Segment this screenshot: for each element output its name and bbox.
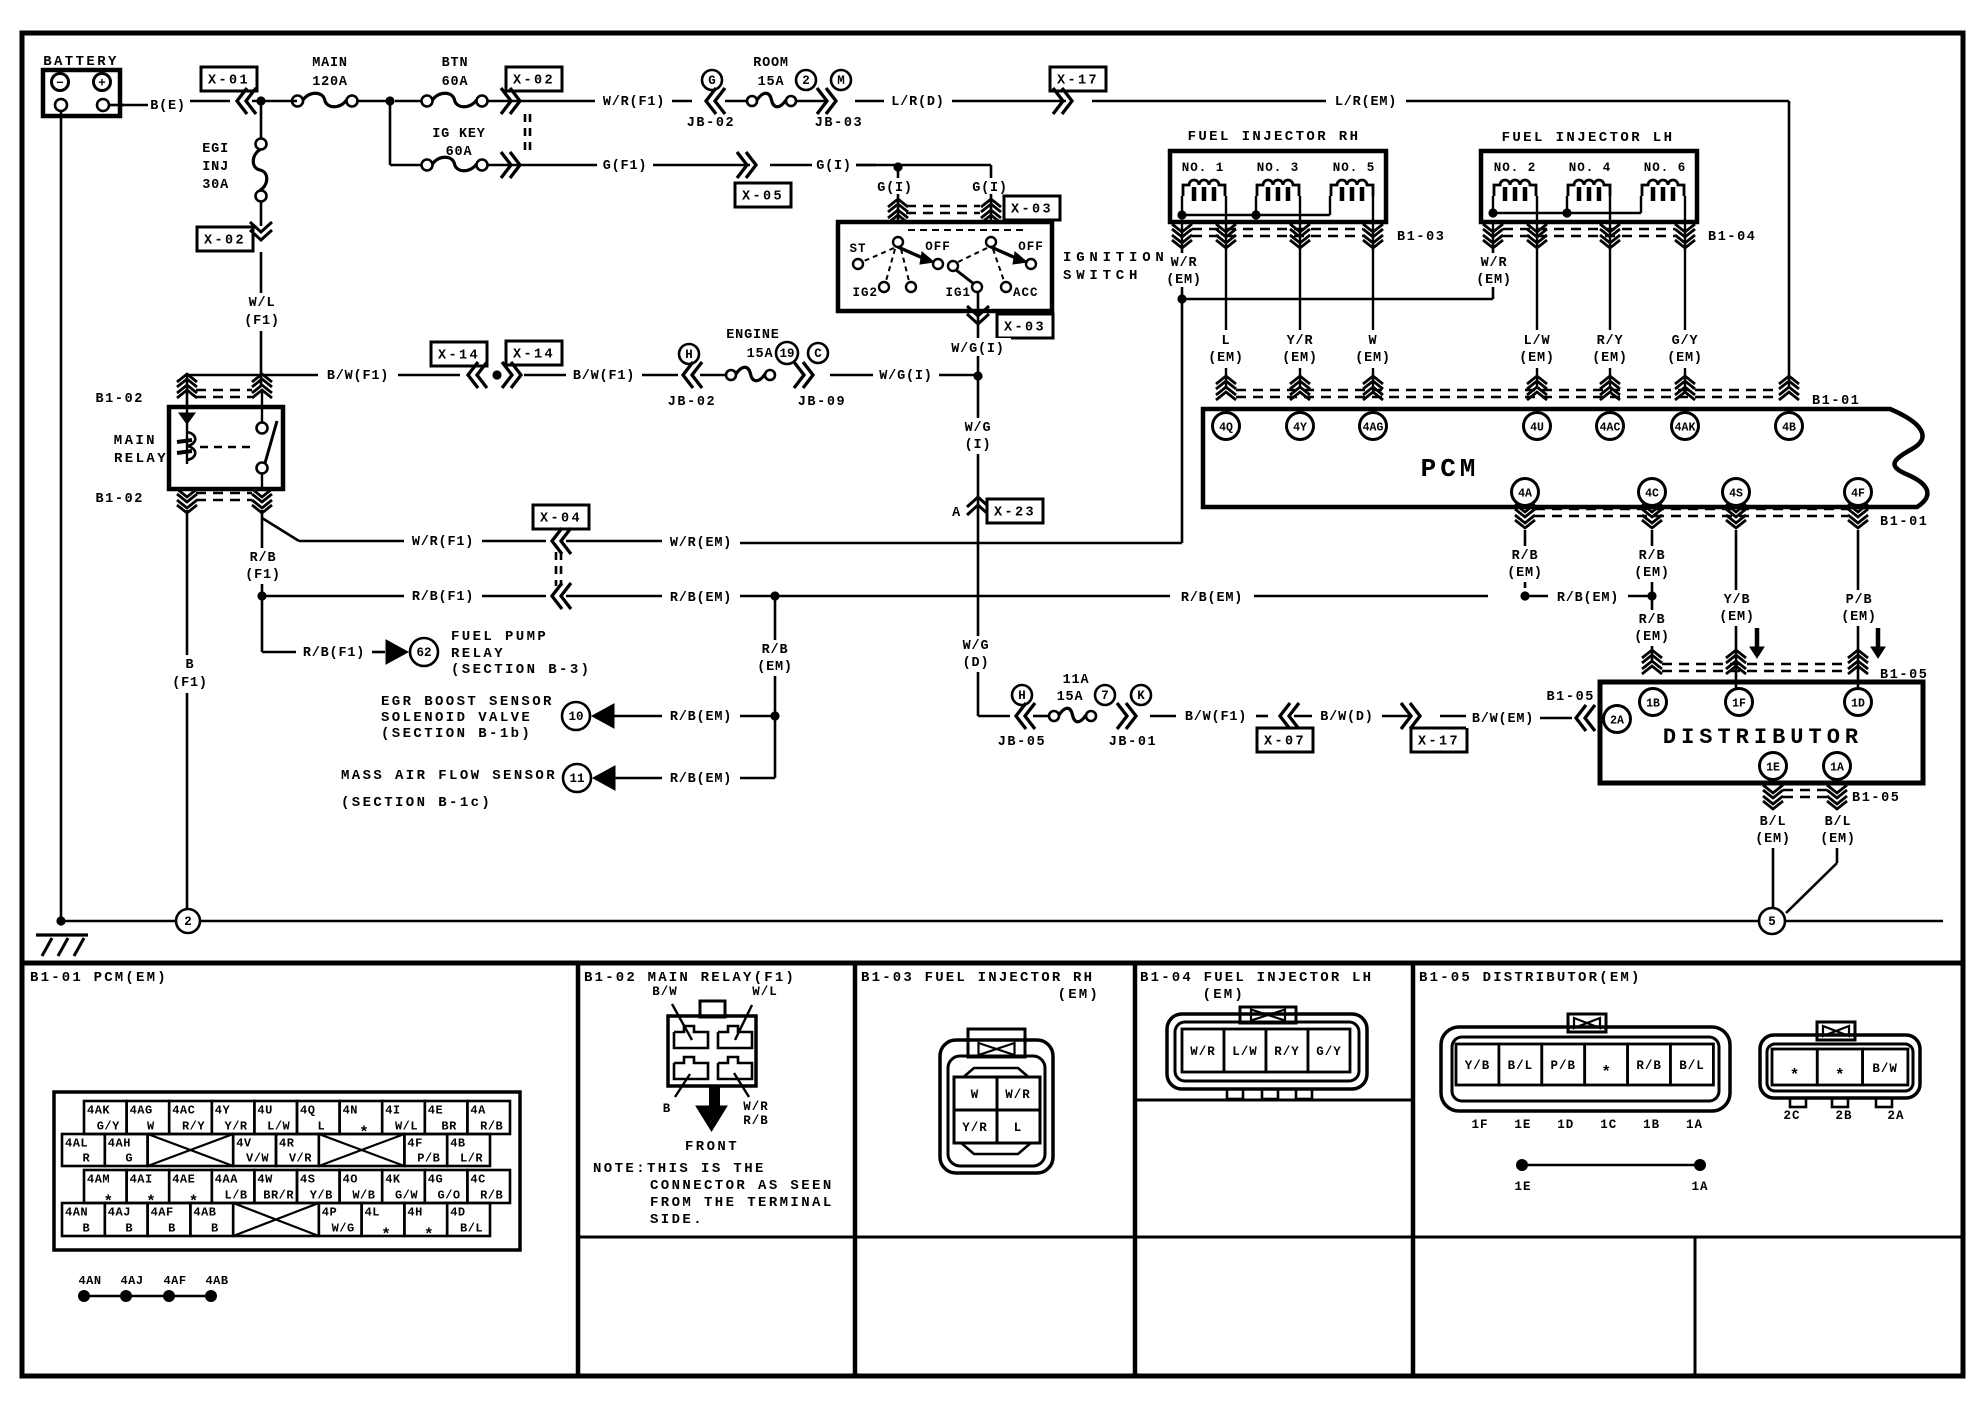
svg-text:G: G [708,74,716,88]
svg-text:4F: 4F [1851,488,1865,501]
svg-text:B/W: B/W [652,985,678,999]
svg-text:B/L: B/L [1679,1059,1705,1073]
svg-text:(EM): (EM) [1476,273,1512,288]
svg-text:X-02: X-02 [513,74,555,89]
svg-text:4I: 4I [385,1104,400,1118]
svg-text:15A: 15A [758,75,785,90]
svg-text:MAIN: MAIN [114,433,157,449]
svg-text:7: 7 [1101,689,1109,703]
svg-text:EGR BOOST SENSOR: EGR BOOST SENSOR [381,694,554,710]
svg-text:4Q: 4Q [1219,422,1233,435]
svg-text:MAIN: MAIN [312,56,348,71]
svg-text:B: B [186,658,195,673]
svg-text:4S: 4S [300,1173,315,1187]
svg-text:H: H [1018,689,1026,703]
svg-text:JB-05: JB-05 [998,735,1047,750]
svg-text:4U: 4U [257,1104,272,1118]
svg-text:(EM): (EM) [1355,351,1391,366]
svg-text:FUEL INJECTOR RH: FUEL INJECTOR RH [1188,129,1361,145]
svg-text:R/Y: R/Y [1597,334,1624,349]
svg-text:R: R [83,1152,91,1166]
svg-text:R/B(EM): R/B(EM) [1181,591,1243,606]
svg-text:BATTERY: BATTERY [43,54,119,70]
svg-text:(EM): (EM) [1208,351,1244,366]
svg-text:(EM): (EM) [757,660,793,675]
svg-text:4AG: 4AG [1363,422,1384,435]
svg-text:1B: 1B [1643,1118,1660,1132]
svg-text:L/R(D): L/R(D) [891,95,944,110]
svg-text:R/B(EM): R/B(EM) [670,710,732,725]
svg-text:Y/B: Y/B [310,1189,333,1203]
svg-text:NO. 5: NO. 5 [1333,161,1376,175]
svg-text:4O: 4O [343,1173,358,1187]
svg-text:B/L: B/L [460,1222,483,1236]
svg-text:(I): (I) [965,438,992,453]
svg-text:B: B [168,1222,176,1236]
svg-text:1D: 1D [1557,1118,1574,1132]
svg-text:4E: 4E [428,1104,443,1118]
svg-text:B(E): B(E) [150,99,186,114]
svg-text:INJ: INJ [202,160,229,175]
svg-text:4AB: 4AB [193,1206,216,1220]
svg-text:V/R: V/R [289,1152,312,1166]
svg-text:4AC: 4AC [172,1104,195,1118]
svg-text:W/L: W/L [395,1120,418,1134]
svg-text:B/W(EM): B/W(EM) [1472,712,1534,727]
svg-text:IG KEY: IG KEY [432,127,486,142]
svg-text:4H: 4H [407,1206,422,1220]
svg-text:W/G(I): W/G(I) [951,342,1004,357]
svg-text:R/B: R/B [762,643,789,658]
svg-text:4AN: 4AN [65,1206,88,1220]
svg-text:B/L: B/L [1508,1059,1534,1073]
svg-text:G/Y: G/Y [1672,334,1699,349]
svg-text:1F: 1F [1471,1118,1488,1132]
svg-text:B1-01 PCM(EM): B1-01 PCM(EM) [30,970,168,986]
svg-text:FROM THE TERMINAL: FROM THE TERMINAL [650,1195,834,1211]
svg-text:4A: 4A [1518,488,1532,501]
svg-text:4Y: 4Y [215,1104,231,1118]
svg-text:ACC: ACC [1013,286,1039,300]
svg-text:DISTRIBUTOR: DISTRIBUTOR [1663,725,1863,750]
svg-text:4L: 4L [365,1206,380,1220]
svg-text:EGI: EGI [202,142,229,157]
svg-text:W/R: W/R [1005,1088,1031,1102]
svg-text:X-03: X-03 [1004,321,1046,336]
svg-text:4B: 4B [1782,422,1796,435]
svg-text:1A: 1A [1830,762,1844,775]
svg-text:W/R(F1): W/R(F1) [603,95,665,110]
svg-text:4AJ: 4AJ [108,1206,131,1220]
svg-text:4U: 4U [1530,422,1544,435]
svg-text:R/B(F1): R/B(F1) [303,646,365,661]
svg-text:B/W(F1): B/W(F1) [1185,710,1247,725]
svg-text:*: * [1835,1067,1845,1085]
svg-text:(SECTION B-1c): (SECTION B-1c) [341,795,492,811]
svg-text:W/R: W/R [1171,256,1198,271]
svg-text:P/B: P/B [1551,1059,1577,1073]
svg-text:W/G: W/G [332,1222,355,1236]
svg-text:B: B [663,1102,672,1116]
svg-text:1E: 1E [1514,1180,1531,1194]
svg-text:4AK: 4AK [87,1104,110,1118]
svg-text:(SECTION B-3): (SECTION B-3) [451,662,591,678]
svg-text:4N: 4N [343,1104,358,1118]
svg-text:OFF: OFF [925,240,951,254]
svg-text:BR: BR [441,1120,457,1134]
svg-text:L/R(EM): L/R(EM) [1335,95,1397,110]
svg-text:W/R: W/R [1481,256,1508,271]
svg-text:A: A [952,506,961,521]
svg-text:(D): (D) [963,656,990,671]
svg-text:W: W [971,1088,980,1102]
svg-text:B: B [211,1222,219,1236]
svg-text:R/B: R/B [743,1114,769,1128]
svg-text:X-05: X-05 [742,190,784,205]
svg-text:X-17: X-17 [1057,74,1099,89]
svg-text:11A: 11A [1063,673,1090,688]
svg-text:R/B: R/B [1636,1059,1662,1073]
svg-text:ENGINE: ENGINE [726,328,779,343]
svg-text:4AB: 4AB [205,1274,228,1288]
svg-text:SIDE.: SIDE. [650,1212,704,1228]
svg-text:(EM): (EM) [1667,351,1703,366]
svg-text:2B: 2B [1835,1109,1852,1123]
svg-text:(EM): (EM) [1719,610,1755,625]
svg-text:R/B(EM): R/B(EM) [670,591,732,606]
svg-text:B1-01: B1-01 [1880,515,1929,530]
svg-text:60A: 60A [442,75,469,90]
svg-text:−: − [56,77,64,91]
svg-text:R/B(EM): R/B(EM) [670,772,732,787]
svg-text:G: G [125,1152,133,1166]
svg-text:W/L: W/L [249,296,276,311]
svg-text:SWITCH: SWITCH [1063,268,1142,284]
svg-text:W/B: W/B [352,1189,375,1203]
svg-text:4A: 4A [470,1104,486,1118]
svg-text:4G: 4G [428,1173,443,1187]
svg-text:4B: 4B [450,1137,465,1151]
svg-text:R/B: R/B [1512,549,1539,564]
svg-text:L: L [317,1120,325,1134]
svg-text:NO. 4: NO. 4 [1569,161,1612,175]
svg-text:B1-04 FUEL INJECTOR LH: B1-04 FUEL INJECTOR LH [1140,970,1373,986]
svg-text:+: + [98,77,106,91]
svg-text:X-14: X-14 [438,349,480,364]
svg-text:P/B: P/B [1846,593,1873,608]
svg-text:4AI: 4AI [130,1173,153,1187]
svg-text:X-14: X-14 [513,348,555,363]
svg-text:Y/B: Y/B [1724,593,1751,608]
svg-text:L/W: L/W [267,1120,290,1134]
svg-text:B: B [125,1222,133,1236]
svg-text:(F1): (F1) [244,314,280,329]
svg-text:1E: 1E [1766,762,1780,775]
svg-text:NOTE:THIS IS THE: NOTE:THIS IS THE [593,1161,766,1177]
svg-text:W/R(F1): W/R(F1) [412,535,474,550]
svg-text:11: 11 [569,772,584,786]
svg-text:X-04: X-04 [540,512,582,527]
svg-text:W/G(I): W/G(I) [879,369,932,384]
svg-text:K: K [1137,689,1145,703]
svg-text:1A: 1A [1686,1118,1703,1132]
svg-text:4AE: 4AE [172,1173,195,1187]
svg-text:W: W [1369,334,1378,349]
svg-text:(EM): (EM) [1282,351,1318,366]
svg-text:4V: 4V [236,1137,252,1151]
svg-text:4R: 4R [279,1137,295,1151]
svg-text:R/B(EM): R/B(EM) [1557,591,1619,606]
svg-text:2C: 2C [1783,1109,1800,1123]
svg-text:4C: 4C [1645,488,1659,501]
svg-text:(EM): (EM) [1841,610,1877,625]
svg-text:4W: 4W [257,1173,273,1187]
svg-text:P/B: P/B [417,1152,440,1166]
svg-text:B1-03: B1-03 [1397,230,1446,245]
svg-text:CONNECTOR AS SEEN: CONNECTOR AS SEEN [650,1178,834,1194]
svg-text:RELAY: RELAY [451,646,505,662]
svg-text:B1-03 FUEL INJECTOR RH: B1-03 FUEL INJECTOR RH [861,970,1094,986]
svg-text:4Y: 4Y [1293,422,1307,435]
svg-text:X-02: X-02 [204,234,246,249]
svg-text:4AH: 4AH [108,1137,131,1151]
svg-text:4S: 4S [1729,488,1743,501]
svg-text:ROOM: ROOM [753,56,789,71]
svg-text:W/L: W/L [752,985,778,999]
svg-text:Y/R: Y/R [225,1120,248,1134]
svg-text:2A: 2A [1887,1109,1904,1123]
svg-text:*: * [1601,1064,1611,1082]
svg-text:B1-02: B1-02 [95,492,144,507]
svg-text:(SECTION B-1b): (SECTION B-1b) [381,726,532,742]
svg-text:4AL: 4AL [65,1137,88,1151]
svg-text:(F1): (F1) [245,568,281,583]
svg-text:G(I): G(I) [877,181,913,196]
svg-text:IG1: IG1 [945,286,971,300]
svg-text:62: 62 [416,646,431,660]
svg-text:(EM): (EM) [1634,566,1670,581]
svg-text:B1-04: B1-04 [1708,230,1757,245]
svg-text:MASS AIR FLOW SENSOR: MASS AIR FLOW SENSOR [341,768,557,784]
svg-text:X-17: X-17 [1418,735,1460,750]
svg-text:(EM): (EM) [1507,566,1543,581]
svg-text:4AG: 4AG [130,1104,153,1118]
svg-text:B/W(F1): B/W(F1) [327,369,389,384]
svg-text:OFF: OFF [1018,240,1044,254]
svg-text:W: W [147,1120,155,1134]
svg-text:4AK: 4AK [1675,422,1696,435]
svg-text:4AF: 4AF [151,1206,174,1220]
svg-text:G(F1): G(F1) [603,159,648,174]
svg-text:RELAY: RELAY [114,451,168,467]
svg-text:NO. 6: NO. 6 [1644,161,1687,175]
svg-text:G/O: G/O [438,1189,461,1203]
svg-text:W/R: W/R [1190,1045,1216,1059]
svg-text:JB-02: JB-02 [668,395,717,410]
svg-text:B/L: B/L [1760,815,1787,830]
svg-text:4AJ: 4AJ [120,1274,143,1288]
svg-text:B/W(D): B/W(D) [1320,710,1373,725]
svg-text:(EM): (EM) [1058,987,1100,1003]
svg-text:B/W(F1): B/W(F1) [573,369,635,384]
svg-text:L/W: L/W [1524,334,1551,349]
svg-text:5: 5 [1768,915,1776,929]
svg-text:15A: 15A [747,347,774,362]
svg-text:L: L [1014,1121,1023,1135]
svg-text:BR/R: BR/R [263,1189,294,1203]
svg-text:G/Y: G/Y [97,1120,120,1134]
svg-text:G/W: G/W [395,1189,418,1203]
svg-text:B1-02: B1-02 [95,392,144,407]
svg-text:JB-03: JB-03 [815,116,864,131]
svg-text:1B: 1B [1646,698,1660,711]
svg-text:(EM): (EM) [1166,273,1202,288]
svg-text:G(I): G(I) [972,181,1008,196]
svg-text:4AM: 4AM [87,1173,110,1187]
svg-text:B1-05 DISTRIBUTOR(EM): B1-05 DISTRIBUTOR(EM) [1419,970,1642,986]
svg-text:FUEL PUMP: FUEL PUMP [451,629,548,645]
svg-text:2: 2 [184,915,192,929]
svg-text:4D: 4D [450,1206,465,1220]
svg-text:4F: 4F [407,1137,422,1151]
svg-text:R/Y: R/Y [182,1120,205,1134]
svg-text:120A: 120A [312,75,348,90]
svg-text:R/B: R/B [250,551,277,566]
svg-text:R/B: R/B [1639,549,1666,564]
svg-text:(F1): (F1) [172,676,208,691]
svg-text:X-07: X-07 [1264,735,1306,750]
svg-text:JB-09: JB-09 [798,395,847,410]
svg-text:R/B: R/B [480,1189,503,1203]
svg-text:B1-02 MAIN RELAY(F1): B1-02 MAIN RELAY(F1) [584,970,796,986]
svg-text:R/B(F1): R/B(F1) [412,590,474,605]
svg-text:C: C [814,347,822,361]
svg-text:19: 19 [779,347,794,361]
svg-text:1D: 1D [1851,698,1865,711]
svg-text:1E: 1E [1514,1118,1531,1132]
svg-text:W/G: W/G [963,639,990,654]
svg-text:ST: ST [849,242,866,256]
svg-text:4AF: 4AF [163,1274,186,1288]
svg-text:L/B: L/B [225,1189,248,1203]
svg-text:R/Y: R/Y [1274,1045,1300,1059]
svg-text:L: L [1222,334,1231,349]
svg-text:B/L: B/L [1825,815,1852,830]
svg-text:4AA: 4AA [215,1173,238,1187]
svg-text:X-01: X-01 [208,74,250,89]
svg-text:4K: 4K [385,1173,401,1187]
svg-text:JB-01: JB-01 [1109,735,1158,750]
svg-text:NO. 3: NO. 3 [1257,161,1300,175]
svg-text:SOLENOID VALVE: SOLENOID VALVE [381,710,532,726]
svg-text:R/B: R/B [480,1120,503,1134]
svg-text:G/Y: G/Y [1316,1045,1342,1059]
svg-text:Y/R: Y/R [1287,334,1314,349]
svg-text:W/R(EM): W/R(EM) [670,536,732,551]
svg-text:W/G: W/G [965,421,992,436]
svg-text:2: 2 [802,74,810,88]
svg-text:NO. 1: NO. 1 [1182,161,1225,175]
svg-text:G(I): G(I) [816,159,852,174]
svg-text:4C: 4C [470,1173,485,1187]
svg-text:(EM): (EM) [1820,832,1856,847]
svg-text:*: * [424,1226,434,1244]
svg-text:B1-05: B1-05 [1546,690,1595,705]
svg-text:(EM): (EM) [1634,630,1670,645]
svg-text:X-23: X-23 [994,506,1036,521]
svg-text:NO. 2: NO. 2 [1494,161,1537,175]
svg-text:(EM): (EM) [1519,351,1555,366]
svg-text:2A: 2A [1610,715,1624,728]
svg-text:1C: 1C [1600,1118,1617,1132]
svg-text:4Q: 4Q [300,1104,315,1118]
svg-text:15A: 15A [1057,690,1084,705]
svg-text:1A: 1A [1691,1180,1708,1194]
svg-text:H: H [685,348,693,362]
svg-text:L/W: L/W [1232,1045,1258,1059]
svg-text:B: B [83,1222,91,1236]
svg-text:4P: 4P [322,1206,337,1220]
svg-text:PCM: PCM [1421,454,1480,484]
svg-text:(EM): (EM) [1203,987,1245,1003]
svg-text:IGNITION: IGNITION [1063,250,1169,266]
svg-text:V/W: V/W [246,1152,269,1166]
svg-text:M: M [837,74,845,88]
svg-text:FRONT: FRONT [685,1139,739,1155]
svg-text:R/B: R/B [1639,613,1666,628]
svg-text:W/R: W/R [743,1100,769,1114]
svg-text:JB-02: JB-02 [687,116,736,131]
svg-text:4AN: 4AN [78,1274,101,1288]
svg-text:30A: 30A [202,178,229,193]
svg-text:Y/R: Y/R [962,1121,988,1135]
svg-text:BTN: BTN [442,56,469,71]
svg-text:(EM): (EM) [1592,351,1628,366]
svg-text:Y/B: Y/B [1465,1059,1491,1073]
svg-text:1F: 1F [1732,698,1746,711]
svg-text:*: * [381,1226,391,1244]
svg-text:(EM): (EM) [1755,832,1791,847]
svg-text:10: 10 [568,710,583,724]
svg-text:FUEL INJECTOR LH: FUEL INJECTOR LH [1502,130,1675,146]
svg-text:IG2: IG2 [852,286,878,300]
svg-text:B/W: B/W [1872,1062,1898,1076]
svg-text:L/R: L/R [460,1152,483,1166]
svg-text:4AC: 4AC [1600,422,1621,435]
svg-text:*: * [1790,1067,1800,1085]
svg-text:B1-05: B1-05 [1852,791,1901,806]
svg-text:X-03: X-03 [1011,203,1053,218]
